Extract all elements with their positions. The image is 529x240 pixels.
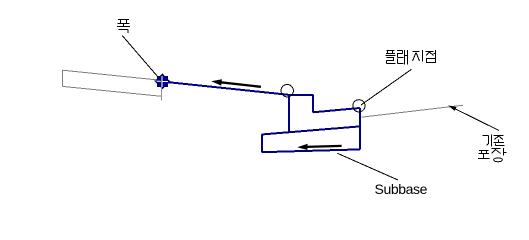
svg-text:Subbase: Subbase (375, 181, 428, 197)
